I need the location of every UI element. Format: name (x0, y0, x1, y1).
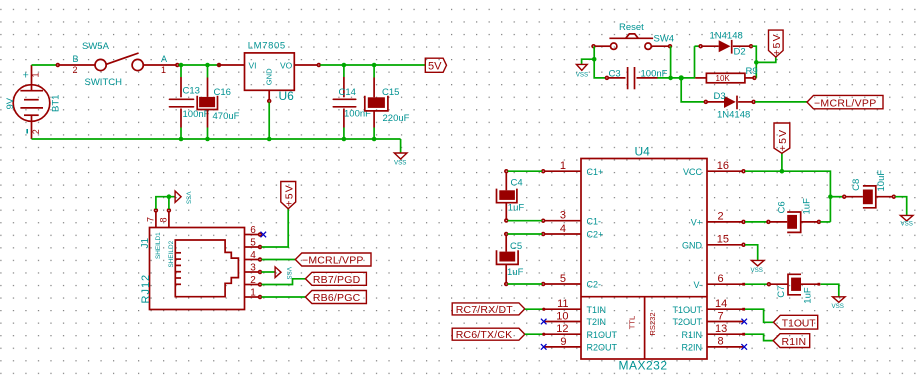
ground VSS left of reset (576, 64, 588, 78)
svg-text:1N4148: 1N4148 (717, 110, 750, 121)
power +5V (reset circuit) (769, 30, 784, 57)
regulator U6 LM7805 (245, 53, 295, 90)
junction pin12 wire end (542, 333, 545, 336)
wire pin14 to T1OUT label (745, 309, 774, 322)
svg-text:C2-: C2- (587, 280, 602, 290)
svg-text:+: + (23, 70, 29, 82)
svg-text:2: 2 (31, 129, 41, 134)
U4 pin 11 T1IN (545, 298, 606, 315)
wire SW4 right down (670, 46, 672, 78)
svg-text:5V: 5V (428, 61, 442, 73)
global label RC6/TX/CK (452, 328, 525, 341)
BT1 pin 2 (-) (27, 115, 41, 139)
svg-text:3: 3 (560, 210, 566, 222)
U6 VO pin (294, 64, 320, 67)
svg-text:11: 11 (557, 298, 568, 310)
global label RC7/RX/DT (452, 303, 525, 316)
svg-text:RB6/PGC: RB6/PGC (313, 292, 361, 304)
junction +5V at VCC (780, 169, 785, 174)
svg-text:2: 2 (73, 65, 78, 75)
J1 pin 1 (245, 288, 262, 299)
U4 pin 9 R2OUT (545, 336, 618, 353)
svg-text:15: 15 (717, 234, 729, 246)
svg-text:VSS: VSS (901, 220, 913, 227)
wire C8 to ground (895, 197, 907, 216)
global label -MCRL/VPP (J1) (295, 253, 371, 267)
wire SW4 left to ground and C3 (594, 46, 606, 78)
svg-text:BT1: BT1 (51, 95, 62, 112)
junction U6 GND bottom (267, 137, 272, 142)
svg-text:U4: U4 (635, 145, 651, 159)
junction pin11 wire end (542, 308, 545, 311)
svg-text:RC7/RX/DT: RC7/RX/DT (456, 304, 514, 316)
capacitor C4 (polarized) (497, 170, 517, 222)
J1 pin 4 (245, 250, 262, 261)
svg-text:RJ12: RJ12 (140, 274, 152, 304)
svg-text:C1-: C1- (587, 216, 602, 226)
svg-text:VSS: VSS (751, 267, 763, 274)
wire pins 7,8 to ground (156, 197, 175, 209)
svg-text:VSS: VSS (394, 159, 406, 166)
svg-text:C4: C4 (511, 178, 523, 189)
svg-text:1N4148: 1N4148 (710, 31, 743, 42)
junction SW4 branch (668, 76, 673, 81)
resistor R9 (695, 73, 756, 83)
wire C3 right node (658, 77, 696, 79)
svg-text:VSS: VSS (185, 192, 192, 204)
junction pins 7/8 (167, 194, 172, 199)
svg-text:VCC: VCC (683, 167, 703, 177)
junction C8 branch (828, 194, 833, 199)
svg-text:J1: J1 (140, 238, 151, 249)
no-connect X pin 7 (741, 319, 747, 325)
svg-text:12: 12 (556, 323, 568, 335)
svg-text:T1OUT: T1OUT (782, 318, 816, 329)
U4 pin 12 R1OUT (545, 323, 618, 340)
svg-text:2: 2 (250, 275, 256, 286)
wire to D2 anode (695, 45, 701, 47)
junction C15 bottom (372, 137, 377, 142)
junction at C15 top (372, 63, 377, 68)
wire R9 right up (755, 77, 758, 79)
svg-text:SWITCH: SWITCH (85, 77, 123, 88)
svg-text:B: B (73, 54, 79, 64)
wire D3 to MCRL label (755, 101, 807, 103)
capacitor C15 (polarized) (365, 65, 388, 139)
svg-text:D2: D2 (734, 47, 746, 58)
svg-text:10: 10 (556, 311, 568, 323)
ground VSS (power bus) (394, 153, 407, 166)
wire +5V symbol to node (756, 57, 776, 62)
wire switch to regulator input (179, 64, 220, 66)
svg-text:1: 1 (560, 160, 566, 172)
svg-text:GND: GND (264, 68, 273, 85)
svg-text:R1IN: R1IN (681, 330, 702, 340)
connector J1 RJ12 body (150, 228, 245, 310)
svg-text:D3: D3 (714, 91, 726, 102)
ground bus wire (32, 138, 401, 140)
junction +5V branch (754, 60, 759, 65)
svg-text:C3: C3 (609, 68, 621, 79)
diode D3 (704, 96, 755, 110)
svg-text:VSS: VSS (832, 303, 844, 310)
global label R1IN (773, 334, 810, 348)
ground VSS at pin15 (751, 260, 765, 273)
svg-text:+5V: +5V (777, 129, 789, 152)
svg-text:1uF: 1uF (802, 198, 813, 215)
svg-text:4: 4 (560, 223, 566, 235)
svg-text:+5V: +5V (771, 33, 783, 56)
wire C5 top to pin 4 (508, 233, 542, 235)
svg-text:14: 14 (715, 298, 727, 310)
svg-text:C5: C5 (510, 241, 522, 252)
U4 pin 14 T1OUT (672, 298, 745, 315)
power +5V (U4) (774, 123, 790, 153)
junction at C13 top (179, 63, 184, 68)
switch SW5A (56, 53, 178, 71)
U4 pin 5 C2- (542, 273, 601, 290)
svg-text:5: 5 (560, 273, 566, 285)
U6 VI pin (218, 64, 245, 67)
svg-text:C2+: C2+ (587, 230, 604, 240)
no-connect X pin 9 (541, 344, 547, 350)
svg-text:C16: C16 (214, 87, 231, 98)
svg-text:2: 2 (718, 211, 724, 223)
wire to C8 (830, 196, 843, 198)
svg-text:1uF: 1uF (803, 287, 814, 304)
wire pin4 to MCRL label (262, 259, 296, 261)
ground VSS at J1 shield (175, 191, 191, 204)
power +5V (J1) (281, 182, 296, 209)
U4 pin 10 T2IN (545, 311, 606, 328)
svg-text:R1IN: R1IN (782, 336, 807, 348)
junction C14 bottom (342, 137, 347, 142)
J1 pin 6 (245, 225, 262, 236)
svg-text:VI: VI (249, 60, 257, 70)
svg-text:220uF: 220uF (383, 113, 410, 124)
SW4 left pin (592, 45, 611, 48)
wire +5V to rail (781, 153, 783, 171)
svg-text:T2OUT: T2OUT (672, 317, 702, 327)
wire C4 top to pin 1 (508, 170, 542, 172)
svg-text:1: 1 (250, 288, 256, 299)
wire down to D3 (681, 78, 705, 102)
svg-text:SHEILD2: SHEILD2 (168, 240, 175, 267)
svg-text:RS232: RS232 (648, 312, 657, 335)
diode D2 (699, 40, 752, 54)
wire pin3 to ground (262, 271, 275, 273)
wire C5 bottom to pin 5 (508, 283, 542, 285)
svg-text:C13: C13 (183, 86, 200, 97)
SW4 right pin (651, 45, 671, 48)
svg-text:8: 8 (718, 336, 724, 348)
wire pin2 to RB7 label (262, 279, 306, 285)
svg-text:6: 6 (718, 273, 724, 285)
wire up to D2 (694, 46, 696, 78)
U4 pin 15 GND (682, 234, 745, 251)
junction C13 bottom (179, 137, 184, 142)
capacitor C7 (polarized) (768, 274, 821, 295)
svg-text:+5V: +5V (284, 184, 296, 207)
global label T1OUT (774, 315, 818, 329)
wire pin2 to C6 (745, 221, 768, 223)
wire C7 to ground (821, 284, 839, 297)
junction left node (592, 57, 597, 62)
svg-text:Reset: Reset (619, 22, 644, 33)
wire battery to switch (32, 64, 58, 66)
wire C4 bottom to pin 3 (508, 220, 542, 222)
svg-text:5: 5 (250, 238, 256, 249)
svg-text:R9: R9 (746, 66, 758, 77)
capacitor C14 (333, 65, 355, 139)
U6 GND pin (268, 90, 271, 139)
J1 pin 5 (245, 238, 262, 249)
svg-text:4: 4 (250, 250, 256, 261)
U4 pin 4 C2+ (542, 223, 603, 240)
svg-text:1: 1 (161, 65, 166, 75)
svg-text:16: 16 (717, 160, 729, 172)
global label RB6/PGC (305, 291, 366, 305)
hierarchical label 5V (425, 58, 446, 72)
svg-text:VSS: VSS (576, 72, 588, 79)
U4 pin 2 V+ (691, 211, 745, 228)
wire down to VSS (400, 139, 402, 153)
BT1 pin 1 (+) (23, 65, 41, 91)
no-connect X pin 10 (541, 319, 547, 325)
J1 pin 2 (245, 275, 262, 286)
ground VSS at C7 (832, 297, 846, 310)
pushbutton SW4 Reset (609, 34, 653, 50)
battery BT1 (13, 85, 50, 122)
svg-text:RC6/TX/CK: RC6/TX/CK (456, 329, 513, 341)
svg-text:9V: 9V (5, 97, 16, 109)
svg-text:VO: VO (280, 60, 293, 70)
no-connect X pin 8 (741, 344, 747, 350)
svg-text:U6: U6 (279, 89, 295, 103)
global label -MCRL/VPP (reset) (807, 95, 883, 109)
wire RC7 label to pin 11 (525, 308, 544, 310)
capacitor C8 (polarized) (843, 186, 895, 208)
wire pin1 to RB6 label (262, 296, 306, 298)
svg-text:SW4: SW4 (654, 34, 675, 45)
wire VCC rail (745, 171, 830, 222)
svg-text:T1OUT: T1OUT (672, 305, 702, 315)
wire regulator output to 5V label (320, 64, 425, 66)
svg-text:1: 1 (30, 72, 40, 77)
svg-text:SHEILD1: SHEILD1 (155, 232, 162, 259)
junction C16 bottom (205, 137, 210, 142)
svg-text:100nF: 100nF (183, 109, 210, 120)
svg-text:13: 13 (715, 323, 727, 335)
U4 pin 8 R2IN (681, 336, 743, 353)
wire pin15 to ground (745, 245, 758, 261)
U4 pin 7 T2OUT (672, 310, 743, 327)
svg-text:470uF: 470uF (213, 111, 240, 122)
J1 pin 8 (159, 209, 171, 228)
ground VSS at J1 pin3 (275, 267, 292, 279)
svg-text:9: 9 (560, 336, 566, 348)
wire pin6 to C7 (745, 283, 768, 285)
svg-text:SW5A: SW5A (82, 41, 110, 52)
U4 pin 3 C1- (542, 210, 601, 227)
global label RB7/PGD (305, 272, 366, 286)
wire pin 8 up (168, 197, 170, 209)
capacitor C5 (polarized) (497, 233, 519, 286)
svg-text:V+: V+ (691, 218, 702, 228)
svg-text:R2OUT: R2OUT (587, 343, 618, 353)
U4 pin 1 C1+ (542, 160, 603, 177)
IC U4 MAX232 body (581, 159, 707, 360)
svg-text:C6: C6 (777, 201, 788, 213)
svg-text:C1+: C1+ (587, 167, 604, 177)
junction at C16 top (205, 63, 210, 68)
J1 pin 7 (146, 209, 158, 228)
svg-text:MAX232: MAX232 (619, 358, 668, 372)
svg-text:LM7805: LM7805 (248, 40, 286, 51)
svg-text:1uF: 1uF (508, 203, 525, 214)
capacitor C13 (170, 65, 194, 139)
ground VSS at C8 (900, 215, 913, 227)
svg-text:A: A (161, 54, 167, 64)
svg-text:R2IN: R2IN (681, 343, 702, 353)
U4 pin 6 V- (693, 273, 745, 290)
wire pin5 to +5V (262, 209, 289, 247)
svg-text:GND: GND (682, 240, 703, 250)
svg-text:−MCRL/VPP: −MCRL/VPP (814, 97, 877, 109)
svg-text:6: 6 (250, 225, 256, 236)
svg-text:R1OUT: R1OUT (587, 330, 618, 340)
svg-text:C8: C8 (851, 179, 862, 191)
svg-text:VSS: VSS (285, 267, 292, 279)
svg-text:7: 7 (718, 310, 724, 322)
svg-text:10K: 10K (716, 74, 731, 83)
svg-text:3: 3 (250, 263, 256, 274)
capacitor C3 (606, 67, 658, 89)
svg-text:V-: V- (693, 280, 702, 290)
wire RC6 label to pin 12 (525, 333, 544, 335)
svg-text:TTL: TTL (627, 316, 636, 330)
svg-text:10uF: 10uF (876, 170, 887, 192)
svg-text:T1IN: T1IN (587, 305, 607, 315)
wire C6 to rail (820, 221, 830, 223)
J1 pin 3 (245, 263, 262, 274)
svg-text:C15: C15 (382, 87, 399, 98)
wire D2 cathode to +5V node (752, 46, 756, 78)
capacitor C6 (polarized) (767, 212, 820, 232)
svg-text:C14: C14 (339, 87, 356, 98)
no-connect X pin 6 (261, 232, 267, 238)
capacitor C16 (polarized) (197, 65, 217, 139)
junction D3 branch (679, 75, 684, 80)
U4 pin 13 R1IN (681, 323, 745, 340)
svg-text:−MCRL/VPP: −MCRL/VPP (302, 255, 364, 267)
svg-text:C7: C7 (776, 286, 787, 298)
svg-text:T2IN: T2IN (587, 317, 607, 327)
svg-text:RB7/PGD: RB7/PGD (313, 274, 361, 286)
U4 pin 16 VCC (683, 160, 745, 177)
svg-text:7: 7 (146, 217, 156, 222)
wire pin13 to R1IN label (745, 334, 773, 340)
wire to VSS (582, 59, 595, 64)
junction at C14 top (342, 63, 347, 68)
svg-text:1uF: 1uF (507, 267, 524, 278)
svg-text:8: 8 (159, 217, 169, 222)
